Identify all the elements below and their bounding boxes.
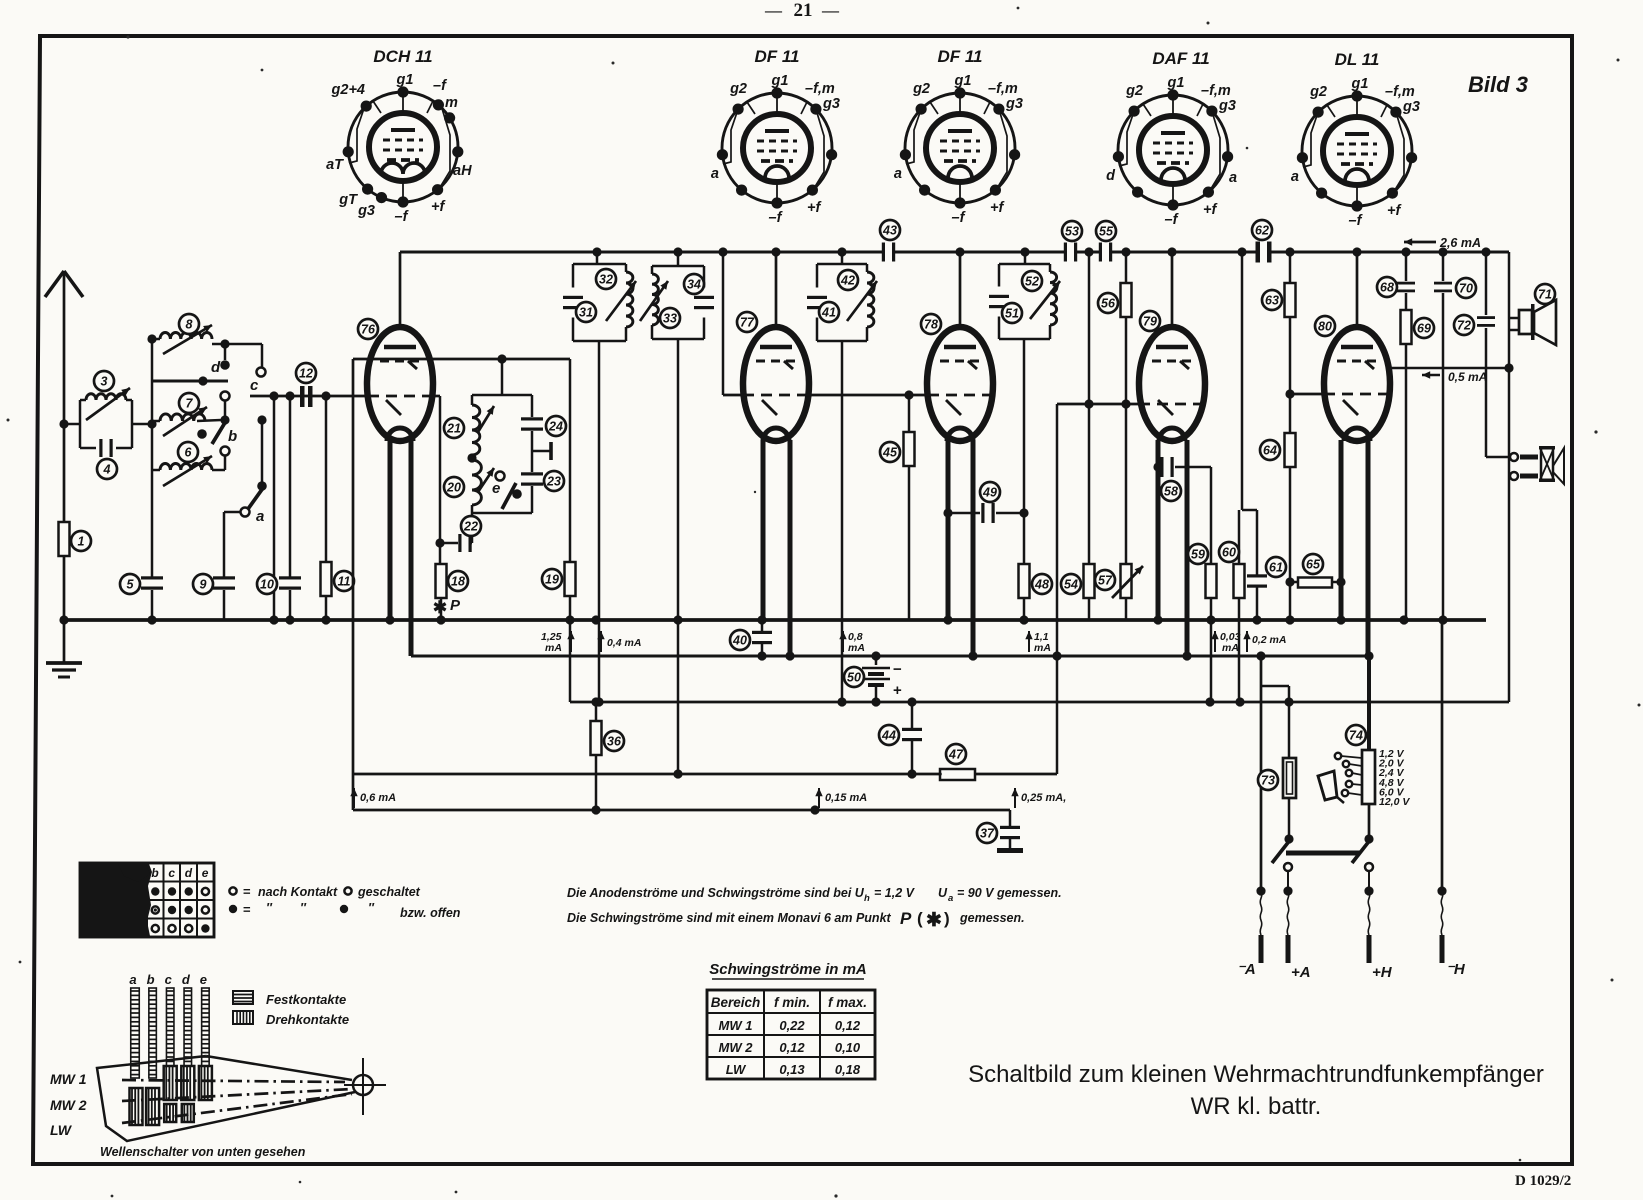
wire bus H2 (ground bus) [60,618,1486,622]
tube socket DCH 11 [326,47,472,225]
svg-text:g1: g1 [1167,75,1185,91]
capacitor C5 [141,576,163,579]
svg-text:55: 55 [1099,225,1114,239]
current label 1.1 mA [1028,631,1030,652]
svg-text:+H: +H [1372,964,1393,981]
svg-text:g2: g2 [912,81,930,97]
svg-text:58: 58 [1164,485,1178,499]
svg-text:(: ( [917,909,923,928]
resistor R18 [439,396,442,565]
svg-text:P: P [900,909,912,928]
svg-text:–f: –f [1349,213,1364,229]
svg-text:21: 21 [794,0,813,21]
wire bus H3 [411,655,1368,658]
svg-text:78: 78 [924,318,938,332]
IF transformer tank [807,264,877,341]
svg-text:MW 1: MW 1 [50,1071,87,1087]
capacitor C68 + resistor R69 [1405,252,1408,281]
svg-text:Die Anodenströme und Schwingst: Die Anodenströme und Schwingströme sind … [567,886,865,900]
capacitor C9 [223,512,226,577]
svg-text:mA: mA [848,642,865,654]
capacitor C44 [911,702,914,728]
svg-text:+f: +f [1203,202,1218,218]
svg-text:f max.: f max. [828,995,867,1010]
coil L3 (variable) [79,400,82,448]
resistor R56 [1125,252,1128,282]
svg-text:Wellenschalter von unten geseh: Wellenschalter von unten gesehen [100,1145,306,1159]
svg-text:68: 68 [1380,281,1394,295]
rotary contact blocks row 2 [130,1088,143,1125]
svg-text:34: 34 [687,278,701,292]
selector crosshair [353,1075,373,1095]
svg-text:mA: mA [545,642,562,654]
svg-text:47: 47 [948,748,964,762]
capacitor C55 [1099,243,1102,262]
svg-text:43: 43 [882,224,897,238]
switch bar d [184,988,192,1066]
svg-text:mA: mA [1034,642,1051,654]
tube U76 [367,327,433,656]
svg-text:Schwingströme in mA: Schwingströme in mA [709,961,867,978]
svg-text:6: 6 [185,446,193,460]
svg-text:MW 2: MW 2 [719,1040,754,1055]
svg-text:e: e [202,866,209,880]
svg-text:Bild 3: Bild 3 [1468,72,1528,97]
svg-text:0,15 mA: 0,15 mA [825,792,867,804]
contact table ink smudge [81,864,152,936]
svg-text:✱: ✱ [926,910,942,931]
svg-text:–f,m: –f,m [805,81,835,97]
capacitor C72 [1485,252,1488,315]
wire bus H6 [353,809,1010,812]
svg-text:geschaltet: geschaltet [357,885,421,899]
svg-text:✱: ✱ [433,598,447,617]
oscillator block [501,359,504,395]
wire tank risers [596,252,599,264]
tube socket DAF 11 [1106,49,1237,228]
switch contact a [261,420,264,482]
svg-text:37: 37 [980,827,995,841]
terminal +H [1368,891,1370,935]
svg-text:0,4 mA: 0,4 mA [607,637,641,649]
capacitor C70 [1442,252,1445,281]
wire grid feed tube 79 [1057,403,1139,406]
svg-text:69: 69 [1417,322,1431,336]
capacitor C62 [1256,242,1261,263]
svg-text:48: 48 [1034,578,1049,592]
svg-text:−: − [893,661,902,678]
svg-text:—: — [821,1,840,20]
svg-text:0,5 mA: 0,5 mA [1448,370,1487,384]
svg-text:WR kl. battr.: WR kl. battr. [1191,1093,1322,1120]
svg-text:e: e [200,972,207,987]
resistor R64 [1285,433,1296,467]
svg-text:DL 11: DL 11 [1335,50,1380,69]
capacitor C10 [289,396,292,577]
svg-text:⁻A: ⁻A [1237,961,1256,978]
switch contact (LW row) [221,447,230,456]
IF transformer tank [563,264,636,341]
rotary contact blocks row 1 [164,1066,177,1100]
svg-text:12,0 V: 12,0 V [1379,796,1410,808]
ground (antenna bus) [59,615,68,624]
svg-text:m: m [445,95,458,111]
svg-text:a: a [129,972,136,987]
resistor R47 [940,769,975,780]
svg-text:70: 70 [1459,282,1473,296]
resistor R54 [1088,252,1091,564]
svg-text:71: 71 [1538,288,1552,302]
resistor R63 [1289,252,1292,282]
svg-text:g2: g2 [1125,83,1143,99]
coil L21 (variable) [471,395,474,405]
capacitor C61 [1256,510,1259,575]
grid line to tube 76 [250,395,368,398]
wire [64,423,80,426]
svg-text:61: 61 [1269,561,1283,575]
coil L6 (variable) [152,469,160,472]
svg-text:53: 53 [1065,225,1079,239]
svg-text:20: 20 [446,481,461,495]
current label 0.03 mA [1214,631,1216,652]
fuse 73 [1283,758,1296,798]
wire coil column [151,339,154,577]
terminal +A [1287,891,1289,935]
capacitor C40 [761,620,764,631]
svg-text:DF 11: DF 11 [937,47,982,66]
switch contact e [496,472,505,481]
svg-text:2,6 mA: 2,6 mA [1439,236,1481,250]
terminal -A [1260,891,1262,935]
wire output column [1508,252,1511,702]
svg-text:65: 65 [1306,558,1321,572]
tube socket DF 11 [894,47,1023,226]
svg-text:0,6 mA: 0,6 mA [360,792,396,804]
svg-text:21: 21 [446,422,461,436]
svg-text:g2+4: g2+4 [331,82,365,98]
svg-text:+f: +f [431,199,446,215]
svg-text:—: — [764,1,783,20]
svg-text:g3: g3 [1218,98,1236,114]
svg-text:33: 33 [663,312,677,326]
svg-text:63: 63 [1265,294,1279,308]
svg-text:32: 32 [599,273,613,287]
svg-text:77: 77 [740,316,755,330]
svg-text:DF 11: DF 11 [754,47,799,66]
svg-text:54: 54 [1064,578,1078,592]
svg-text:51: 51 [1005,307,1019,321]
svg-text:52: 52 [1025,275,1039,289]
tube U79 [1139,327,1205,656]
svg-text:d: d [211,359,221,376]
capacitor C53 [1064,243,1067,262]
svg-text:″: ″ [300,901,307,915]
svg-text:–f: –f [952,210,967,226]
tube socket DF 11 [711,47,840,226]
resistor R65 [1290,581,1297,584]
svg-text:): ) [944,909,950,928]
wire osc top line [353,358,570,361]
svg-text:g3: g3 [357,203,375,219]
svg-text:Drehkontakte: Drehkontakte [266,1012,349,1027]
rotary contact blocks row 3 [164,1104,176,1122]
svg-text:0,25 mA,: 0,25 mA, [1021,792,1066,804]
svg-text:a: a [1291,169,1299,185]
svg-text:LW: LW [50,1122,73,1138]
svg-text:DAF 11: DAF 11 [1152,49,1209,68]
svg-text:12: 12 [299,367,313,381]
svg-text:74: 74 [1349,729,1363,743]
switch bar c [166,988,174,1066]
svg-text:9: 9 [200,578,207,592]
svg-text:c: c [165,972,173,987]
svg-text:73: 73 [1261,774,1275,788]
svg-text:gemessen.: gemessen. [959,911,1025,925]
svg-text:LW: LW [726,1062,747,1077]
svg-text:7: 7 [186,397,194,411]
svg-text:42: 42 [840,274,855,288]
wire MW stub [152,380,228,383]
svg-text:10: 10 [260,578,274,592]
svg-text:MW 1: MW 1 [719,1018,753,1033]
svg-text:a: a [948,893,953,904]
current label 0.4 mA [600,631,602,652]
Schwingstroeme table [707,990,875,1079]
svg-text:+f: +f [807,200,822,216]
resistor R36 [595,702,598,721]
scan specks [126,35,129,38]
capacitor C49 [948,512,980,515]
svg-text:0,10: 0,10 [835,1040,861,1055]
svg-text:c: c [250,377,259,394]
svg-text:= 1,2 V: = 1,2 V [874,886,916,900]
contact table [80,863,214,937]
svg-text:MW 2: MW 2 [50,1097,87,1113]
svg-text:aH: aH [453,163,472,179]
tube U77 [743,327,809,656]
resistor R59 [1210,467,1213,564]
svg-text:23: 23 [546,475,561,489]
svg-text:D 1029/2: D 1029/2 [1515,1173,1571,1189]
svg-text:g1: g1 [1351,76,1369,92]
capacitor C37 + ground [1009,810,1012,826]
node T stub [532,450,550,453]
svg-text:b: b [151,866,158,880]
capacitor C4 [80,447,96,450]
svg-text:+f: +f [1387,203,1402,219]
svg-text:1: 1 [78,535,85,549]
svg-text:g1: g1 [771,73,789,89]
wire bus H1 (anode supply top) [400,251,884,254]
svg-text:–f: –f [1165,212,1180,228]
switch contact c [261,344,264,368]
resistor R11 [325,396,328,562]
svg-text:Bereich: Bereich [711,995,761,1010]
svg-text:22: 22 [463,520,478,534]
IF transformer tank [640,266,714,339]
IF transformer tank [989,264,1060,339]
svg-text:g1: g1 [396,72,414,88]
svg-text:DCH 11: DCH 11 [373,47,432,66]
battery B50 [875,656,878,665]
svg-text:–f: –f [395,209,410,225]
svg-text:–f,m: –f,m [1201,83,1231,99]
svg-text:0,2 mA: 0,2 mA [1252,634,1286,646]
svg-text:+A: +A [1291,964,1311,981]
svg-text:g3: g3 [1005,96,1023,112]
resistor R60 [1241,252,1244,510]
current label 2.6 mA [1404,241,1436,244]
svg-text:a: a [894,166,902,182]
svg-text:3: 3 [101,375,108,389]
power switch [1284,834,1293,843]
svg-text:41: 41 [821,306,836,320]
switch bar a [131,988,140,1078]
svg-text:–f,m: –f,m [1385,84,1415,100]
wire anode risers [399,252,402,328]
svg-text:=: = [243,884,251,899]
current label 0.6 mA [353,788,355,808]
svg-text:a: a [711,166,719,182]
svg-text:g3: g3 [822,96,840,112]
capacitor C22 [458,534,461,552]
headphone jack [1486,456,1510,459]
svg-text:e: e [492,480,500,497]
loudspeaker LS71 [1509,317,1519,320]
svg-text:f min.: f min. [774,995,810,1010]
svg-text:56: 56 [1101,297,1116,311]
legend Festkontakte [233,991,253,1004]
svg-text:bzw. offen: bzw. offen [400,906,461,920]
coil L20 (variable) [472,460,481,505]
svg-text:d: d [182,972,191,987]
svg-text:P: P [450,597,461,614]
svg-text:57: 57 [1098,574,1113,588]
svg-text:+f: +f [990,200,1005,216]
svg-text:b: b [228,428,237,445]
switch bar b [149,988,157,1078]
svg-text:a: a [1229,170,1237,186]
svg-text:″: ″ [266,901,273,915]
svg-text:24: 24 [548,420,563,434]
capacitor C24 [531,395,534,417]
svg-text:–f: –f [769,210,784,226]
wire grid feed tube 77 [722,252,725,395]
svg-text:⁻H: ⁻H [1446,961,1466,978]
svg-text:d: d [185,866,193,880]
svg-text:79: 79 [1143,315,1157,329]
resistor R57 (variable) [1121,564,1132,598]
svg-text:+: + [893,682,902,699]
resistor R19 [569,359,572,562]
resistor R1 [59,522,70,556]
svg-text:5: 5 [127,578,135,592]
current label 0.8 mA [842,631,844,652]
svg-text:U: U [938,886,948,900]
wire osc bottom [472,512,532,515]
wire bus H4 [570,701,1509,704]
tube U80 [1324,327,1390,656]
svg-text:″: ″ [368,901,375,915]
svg-text:0,12: 0,12 [779,1040,805,1055]
svg-text:c: c [168,866,175,880]
svg-text:= 90 V gemessen.: = 90 V gemessen. [957,886,1062,900]
current label 0.25 mA [1014,788,1016,808]
coil L8 (variable) [152,338,160,341]
wire left riser of measure loop [352,359,355,810]
svg-text:18: 18 [451,575,465,589]
tube U78 [927,327,993,656]
switch body outline [97,1056,355,1141]
svg-text:nach Kontakt: nach Kontakt [258,885,338,899]
wire [132,423,152,426]
svg-text:g2: g2 [1309,84,1327,100]
svg-text:40: 40 [732,634,747,648]
svg-text:64: 64 [1263,444,1277,458]
svg-text:g2: g2 [729,81,747,97]
current label 0.15 mA [818,788,820,808]
svg-text:b: b [147,972,155,987]
svg-text:Schaltbild zum kleinen Wehrmac: Schaltbild zum kleinen Wehrmachtrundfunk… [968,1061,1544,1088]
coil L7 (variable) [152,420,160,423]
current label 0.2 mA [1246,631,1248,652]
switch bar e [202,988,210,1066]
capacitor C43 [882,243,885,262]
svg-text:g3: g3 [1402,99,1420,115]
svg-text:50: 50 [847,671,861,685]
svg-text:19: 19 [545,573,559,587]
svg-text:mA: mA [1222,642,1239,654]
fuse R73 feed [1260,656,1263,891]
svg-text:44: 44 [881,729,896,743]
svg-text:0,18: 0,18 [835,1062,861,1077]
svg-text:Festkontakte: Festkontakte [266,992,346,1007]
contact legend [229,887,236,894]
resistor R48 [1019,564,1030,598]
svg-text:62: 62 [1255,224,1269,238]
svg-text:36: 36 [607,735,622,749]
node antenna junction [59,419,68,428]
legend Drehkontakte [233,1011,253,1024]
svg-text:59: 59 [1191,548,1205,562]
svg-text:gT: gT [338,192,358,208]
svg-text:49: 49 [982,486,997,500]
svg-text:h: h [864,893,870,904]
svg-text:g1: g1 [954,73,972,89]
current label 0.5 mA [1390,367,1509,370]
terminal -H [1441,891,1443,935]
tube socket DL 11 [1291,50,1420,229]
resistor R45 + grid feed tube 78 [810,394,928,397]
capacitor C12 [300,386,305,407]
capacitor C58 [1158,466,1159,469]
switch contact b [221,392,230,401]
svg-text:80: 80 [1318,320,1332,334]
svg-text:d: d [1106,168,1116,184]
svg-text:0,22: 0,22 [779,1018,805,1033]
antenna [63,272,66,620]
svg-text:Die Schwingströme sind mit ein: Die Schwingströme sind mit einem Monavi … [567,911,892,925]
svg-text:=: = [243,902,251,917]
wire bus H5 [353,773,1057,776]
svg-text:4: 4 [103,463,111,477]
svg-text:76: 76 [361,323,376,337]
capacitor C23 [521,472,543,475]
svg-text:8: 8 [186,318,193,332]
svg-text:45: 45 [882,446,898,460]
svg-text:31: 31 [579,306,593,320]
svg-text:60: 60 [1222,546,1236,560]
